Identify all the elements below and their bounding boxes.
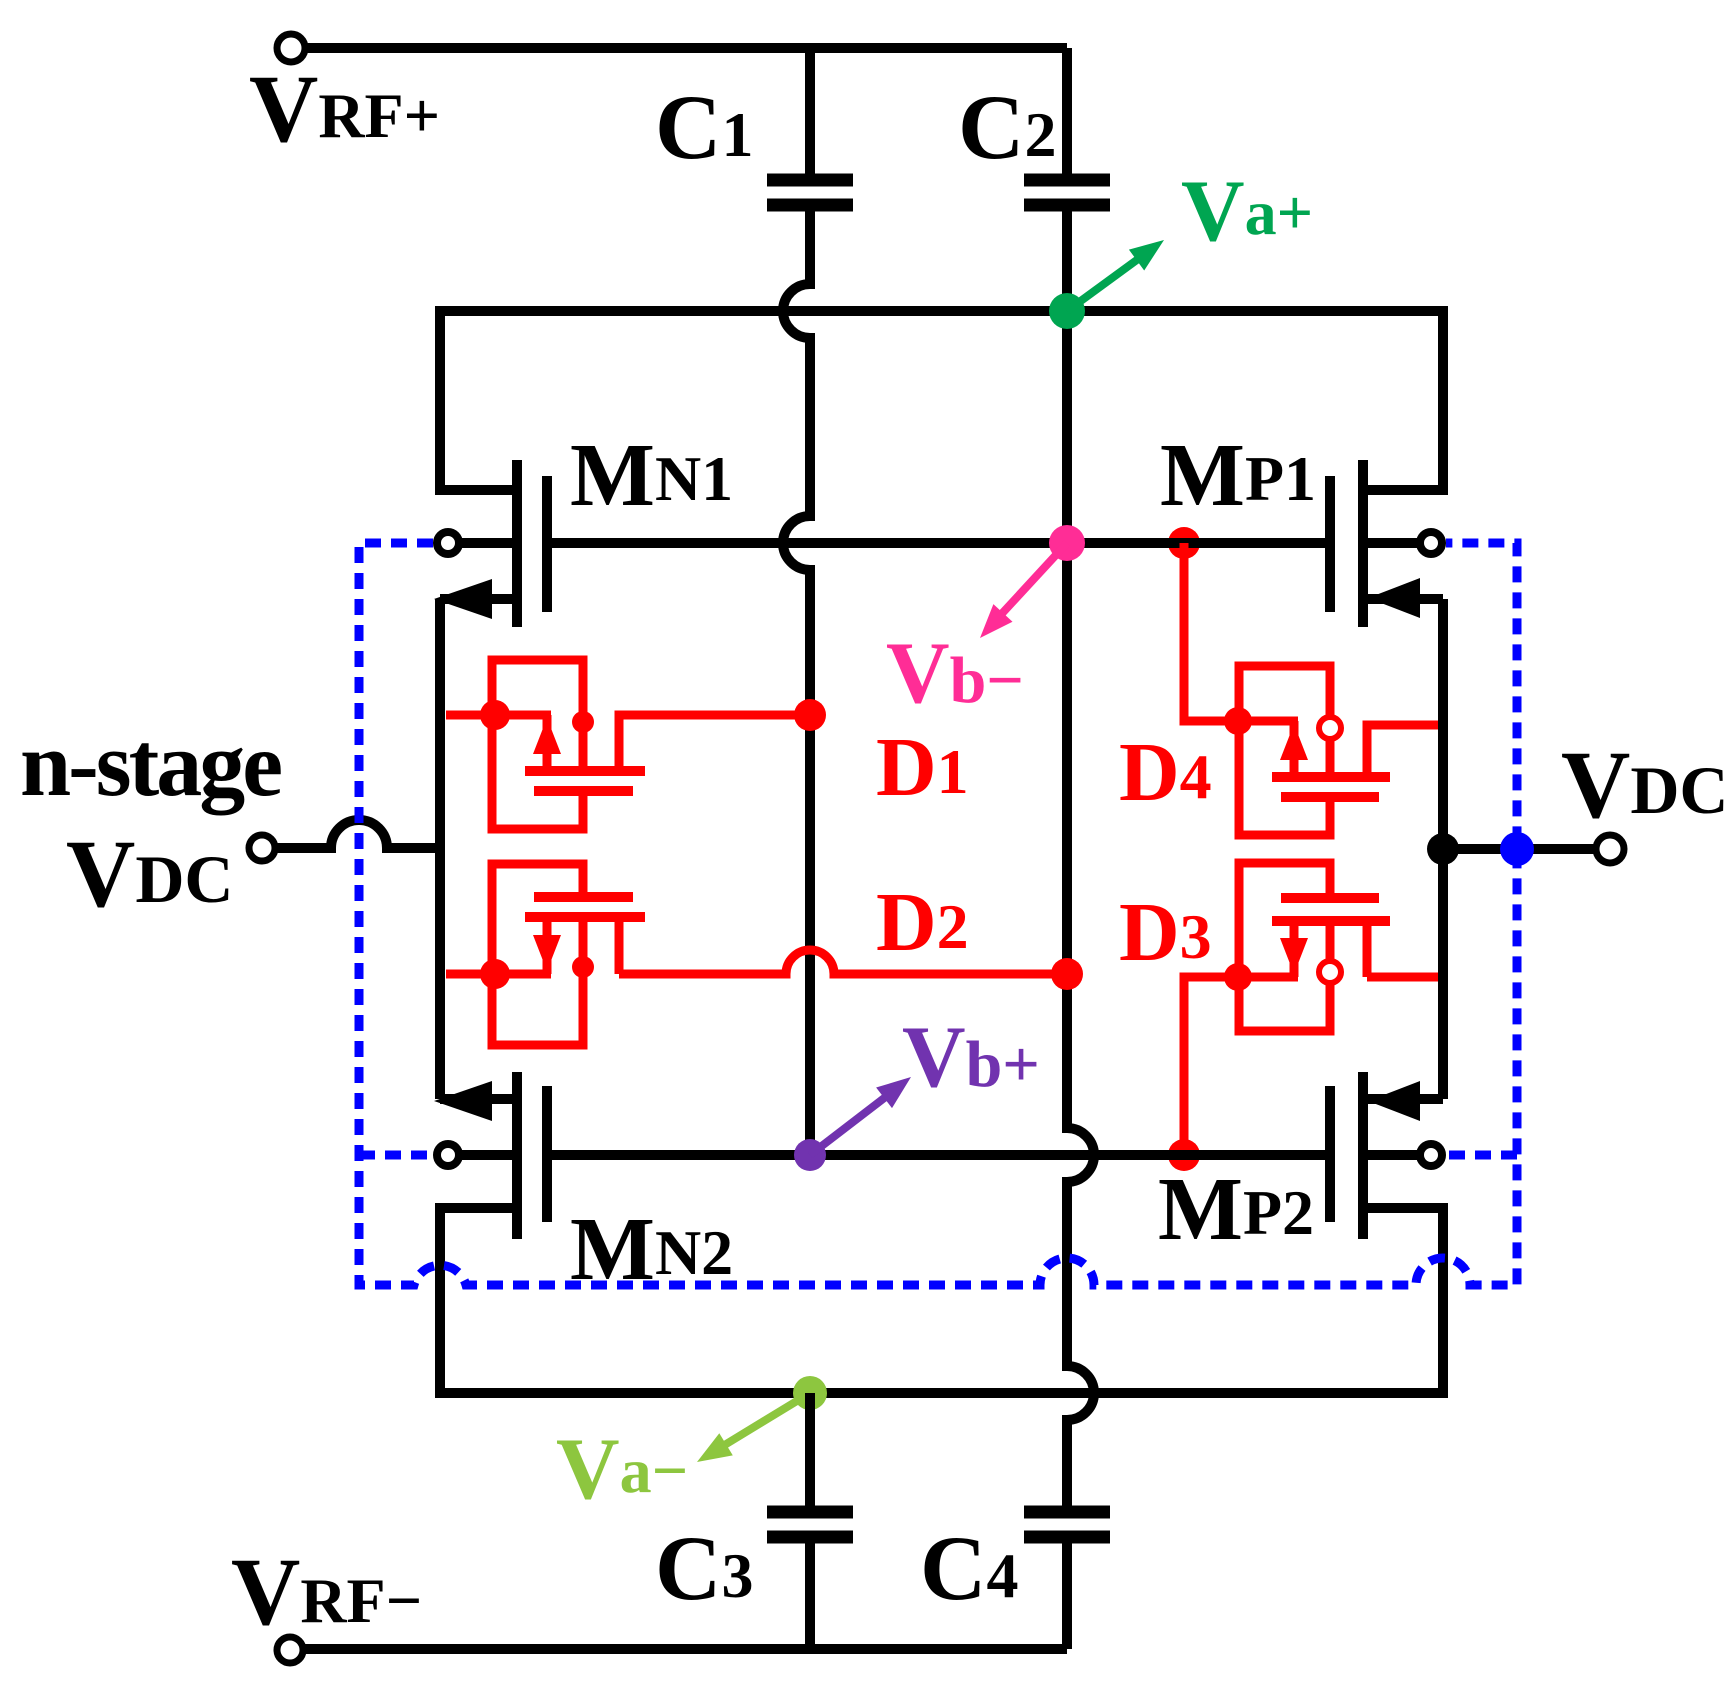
transistor MP2 <box>1330 1072 1443 1239</box>
svg-text:Va−: Va− <box>556 1421 688 1518</box>
svg-text:Va+: Va+ <box>1181 163 1313 260</box>
wire x440 left rail <box>435 599 445 1099</box>
wire VRF- bottom rail <box>304 1644 1067 1654</box>
wire x1067 mid-right rail with hops over y1155 and y1393 <box>1067 311 1094 1506</box>
node VDC blue dot <box>1500 832 1534 866</box>
diode-transistor D2 <box>446 864 1067 1045</box>
transistor MP1 <box>1330 460 1443 627</box>
wire VRF+ top rail <box>305 43 1067 53</box>
node red dot on y543 <box>1168 527 1200 559</box>
terminal n-stage VDC <box>249 835 275 861</box>
node Va- (green dot) <box>793 1376 827 1410</box>
diode-transistor D4 <box>1184 543 1438 835</box>
capacitor C1 <box>767 48 853 205</box>
wire upper gate rail y543 <box>547 538 1330 548</box>
node red dot on y1155 left of MP2 <box>1168 1139 1200 1171</box>
capacitor C2 <box>1024 48 1110 294</box>
node Va+ (green dot) <box>1049 293 1085 329</box>
node Vb+ (purple dot) <box>794 1139 826 1171</box>
node Vb- (pink dot) <box>1049 525 1085 561</box>
wire Va+ rail y311 with corners down to MN1/MP1 drains <box>440 311 1443 490</box>
terminal VDC right <box>1596 835 1624 863</box>
wire VDC right <box>1443 844 1596 854</box>
transistor MN1 <box>440 460 547 627</box>
arrow Va- <box>718 1393 810 1449</box>
wire n-stage VDC with hop over blue dashed <box>276 820 440 848</box>
transistor MN2 <box>440 1072 547 1239</box>
terminal VRF- <box>277 1637 303 1663</box>
arrow Vb+ <box>810 1092 892 1155</box>
svg-text:n-stage: n-stage <box>20 713 281 815</box>
arrow Vb- <box>996 543 1067 620</box>
capacitor C3 <box>767 1393 853 1649</box>
wire x810 mid-left rail with hops over y311 and y543 <box>783 211 810 1155</box>
wire Va- rail y1393 with MN2/MP2 drain connections <box>440 1208 1443 1393</box>
arrow Va+ <box>1067 254 1145 311</box>
node VDC black dot <box>1427 833 1459 865</box>
blue dashed feedback box <box>359 543 1517 1285</box>
terminal VRF+ <box>277 34 305 62</box>
capacitor C4 <box>1024 1512 1110 1649</box>
wire x1443 right rail <box>1438 599 1448 1099</box>
wire lower gate rail y1155 <box>547 1150 1330 1160</box>
diode-transistor D3 <box>1184 863 1438 1155</box>
diode-transistor D1 <box>446 660 810 829</box>
